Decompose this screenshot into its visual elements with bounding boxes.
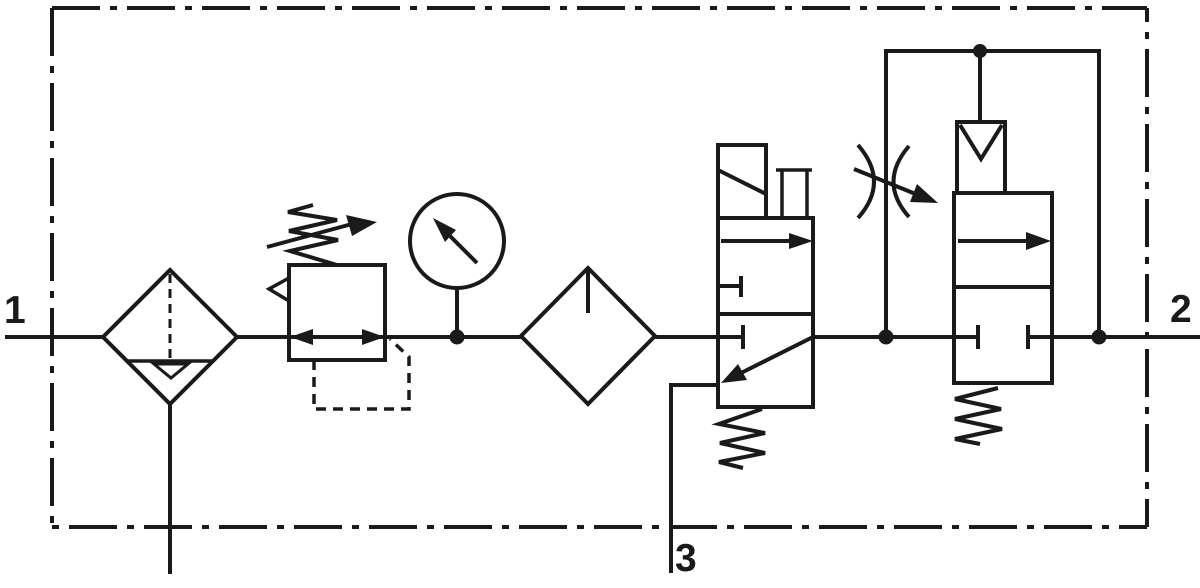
valve V1 bottom position exhaust path arrow	[741, 337, 813, 373]
valve V2 bottom position blocked port left	[954, 325, 978, 349]
node at pilot branch	[879, 330, 894, 345]
valve V2 position divider	[954, 285, 1052, 289]
pressure gauge G1	[410, 194, 504, 288]
valve V1 solenoid	[718, 145, 766, 218]
valve V2 pilot chevron	[960, 125, 1002, 159]
valve V2 body (2/2 soft-start)	[954, 193, 1052, 383]
enclosure border left edge	[50, 8, 54, 527]
regulator R1 flow arrow right	[362, 329, 385, 345]
valve V1 top position blocked port	[718, 276, 741, 297]
regulator R1 flow arrow left	[290, 329, 313, 345]
wire: filter F1 to regulator and gauge node to lubricator	[237, 335, 521, 339]
port 1 label	[6, 296, 24, 323]
valve V1 plunger/manual override	[776, 168, 812, 172]
node at valve V2 outlet	[1092, 330, 1107, 345]
regulator R1 dashed pilot feedback line	[314, 339, 409, 409]
valve V1 bottom position blocked port	[718, 325, 743, 349]
wire: port 1 to filter F1	[5, 335, 103, 339]
lubricator L1 drip line	[586, 270, 590, 313]
wire: valve V1 to port 3	[671, 385, 718, 573]
regulator R1 adjustment spring	[288, 205, 338, 265]
gauge G1 needle	[449, 235, 477, 263]
gauge G1 connector wire	[455, 288, 459, 337]
filter F1 condensate triangle	[154, 364, 188, 378]
filter F1 separator chord	[126, 359, 214, 363]
valve V2 pilot actuator box	[957, 122, 1005, 193]
valve V1 return spring	[719, 409, 765, 468]
regulator R1 adjustment arrow	[267, 224, 352, 247]
filter F1 drain line	[168, 404, 172, 574]
wire: lubricator to valve V1	[655, 335, 718, 339]
wire: valve V1 to throttle node	[813, 335, 954, 339]
node at gauge tap	[450, 330, 465, 345]
pilot branch wire up and over	[886, 51, 1099, 337]
enclosure border right edge	[1145, 8, 1149, 527]
regulator R1 body	[289, 265, 385, 360]
filter F1 dashed element line	[169, 274, 172, 358]
valve V1 top position flow arrow	[721, 239, 793, 243]
port 3 label	[676, 544, 695, 572]
port 2 label	[1171, 295, 1190, 322]
filter/water-separator F1 diamond	[103, 270, 237, 404]
lubricator L1 diamond	[521, 268, 655, 404]
valve V1 body (3/2 valve)	[718, 218, 813, 407]
valve V2 bottom position blocked port right	[1028, 325, 1052, 349]
throttle valve T1 arcs	[858, 145, 874, 218]
enclosure border (dash-dot) top edge	[52, 6, 1147, 10]
node at pilot top junction	[973, 44, 987, 58]
wire: valve V2 node to port 2	[1052, 335, 1200, 339]
throttle T1 adjustment arrow	[854, 169, 918, 195]
wire: pilot drop to valve V2 pilot	[978, 51, 982, 122]
valve V2 top position flow arrow	[958, 239, 1030, 243]
valve V2 return spring	[955, 388, 1002, 444]
regulator R1 relief triangle	[269, 278, 289, 301]
enclosure border bottom edge	[52, 525, 1147, 529]
valve V1 position divider	[718, 312, 813, 316]
